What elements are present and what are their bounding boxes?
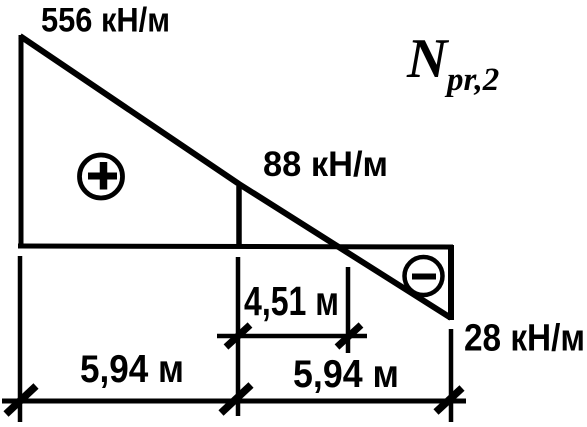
svg-text:5,94 м: 5,94 м bbox=[293, 353, 399, 396]
svg-text:5,94 м: 5,94 м bbox=[80, 348, 184, 391]
tick at left of 4.51 dimension bbox=[226, 325, 250, 347]
label N pr,2 bbox=[406, 28, 499, 98]
extension line left bbox=[18, 256, 23, 422]
tick at left end of main dimension bbox=[6, 386, 36, 414]
tick at middle of main dimension bbox=[221, 385, 251, 413]
plus sign circle bbox=[80, 155, 123, 198]
dimension line 4.51 m bbox=[217, 334, 367, 339]
tick at right end of main dimension bbox=[436, 388, 462, 412]
svg-text:pr,2: pr,2 bbox=[444, 62, 499, 98]
svg-text:28 кН/м: 28 кН/м bbox=[464, 318, 585, 360]
svg-text:556 кН/м: 556 кН/м bbox=[41, 2, 170, 40]
extension line right bbox=[449, 329, 454, 422]
left vertical edge of diagram bbox=[19, 35, 24, 248]
extension line at 4.51 m bbox=[346, 267, 351, 353]
svg-text:N: N bbox=[406, 28, 450, 90]
main dimension line bbox=[2, 399, 466, 404]
extension line middle bbox=[236, 257, 241, 416]
tick at right of 4.51 dimension bbox=[337, 325, 361, 347]
svg-text:88 кН/м: 88 кН/м bbox=[263, 144, 388, 184]
minus sign circle bbox=[405, 257, 443, 295]
baseline (zero axis) bbox=[18, 246, 453, 247]
svg-text:4,51 м: 4,51 м bbox=[244, 278, 339, 324]
sloped top edge of diagram bbox=[20, 36, 451, 318]
right vertical edge of negative area bbox=[448, 245, 454, 320]
ordinate line at 88 kN/m bbox=[236, 186, 242, 246]
